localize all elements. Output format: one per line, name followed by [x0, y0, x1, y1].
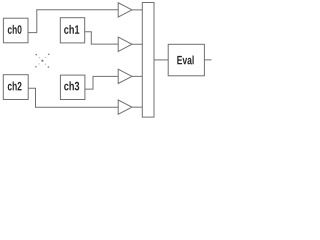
wire buffer A4 output to mux bar: [132, 106, 142, 108]
wire buffer A1 output to mux bar: [132, 9, 142, 11]
block Eval: [168, 44, 204, 76]
mux selector bar: [142, 3, 154, 118]
buffer amplifier A1: [118, 3, 132, 17]
buffer amplifier A2: [118, 37, 132, 51]
wire mux bar output to Eval input: [154, 59, 168, 61]
wire buffer A3 output to mux bar: [132, 75, 142, 77]
wire ch2 output to buffer A4 input: [28, 88, 118, 107]
block ch0: [3, 18, 28, 43]
wire Eval output: [204, 59, 211, 61]
wire ch0 output to buffer A1 input: [28, 10, 118, 33]
buffer amplifier A3: [118, 69, 132, 83]
wire ch1 output to buffer A2 input: [85, 32, 119, 44]
block ch3: [60, 75, 85, 99]
buffer amplifier A4: [118, 100, 132, 114]
block ch2: [3, 75, 28, 100]
block ch1: [60, 18, 84, 43]
dotted cross marker (omitted channels ellipsis): [35, 53, 50, 67]
wire ch3 output to buffer A3 input: [85, 76, 118, 89]
wire buffer A2 output to mux bar: [132, 43, 142, 45]
